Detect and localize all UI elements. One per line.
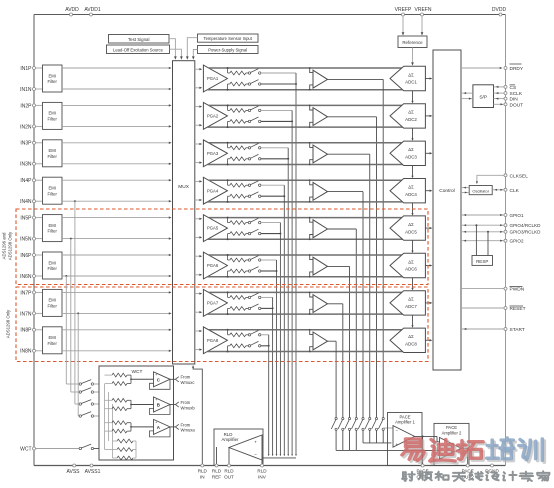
svg-text:IN2N: IN2N: [20, 124, 32, 130]
svg-text:RESP: RESP: [476, 259, 488, 264]
svg-text:RESET: RESET: [510, 306, 526, 312]
svg-text:IN4P: IN4P: [20, 178, 32, 184]
svg-text:ΔΣ: ΔΣ: [408, 334, 414, 339]
svg-text:INV: INV: [258, 475, 267, 480]
svg-text:Amplifier 1: Amplifier 1: [395, 420, 415, 425]
svg-text:A: A: [157, 425, 161, 430]
svg-text:Wmuxb: Wmuxb: [181, 405, 196, 410]
svg-text:IN2P: IN2P: [20, 103, 32, 109]
svg-text:ADC5: ADC5: [405, 229, 417, 234]
svg-text:Control: Control: [439, 188, 454, 194]
svg-text:CLK: CLK: [510, 188, 520, 194]
svg-text:IN4N: IN4N: [20, 199, 32, 205]
svg-text:From: From: [181, 422, 191, 427]
svg-text:DOUT: DOUT: [510, 102, 524, 108]
svg-text:DRDY: DRDY: [510, 66, 524, 72]
svg-text:GPIO2: GPIO2: [510, 239, 524, 244]
svg-text:ADS1298 Only: ADS1298 Only: [8, 231, 13, 260]
svg-text:Filter: Filter: [48, 304, 58, 309]
svg-text:VREFN: VREFN: [415, 7, 432, 13]
svg-text:AVSS: AVSS: [67, 469, 81, 475]
svg-text:PACE: PACE: [446, 425, 457, 430]
svg-text:S/P: S/P: [479, 94, 487, 100]
svg-text:ADC4: ADC4: [405, 192, 417, 197]
svg-text:From: From: [181, 375, 191, 380]
svg-text:Test Signal: Test Signal: [128, 37, 150, 42]
svg-text:IN8N: IN8N: [20, 349, 32, 355]
svg-text:PGA5: PGA5: [207, 226, 219, 231]
svg-text:Filter: Filter: [48, 79, 58, 84]
svg-text:ADC7: ADC7: [405, 304, 417, 309]
svg-text:IN1P: IN1P: [20, 66, 32, 72]
svg-text:REF: REF: [212, 475, 221, 480]
svg-text:CLKSEL: CLKSEL: [510, 173, 529, 179]
svg-text:−: −: [254, 454, 257, 459]
svg-text:Amplifier 2: Amplifier 2: [442, 431, 462, 436]
svg-text:Temperature Sensor Input: Temperature Sensor Input: [203, 36, 252, 41]
svg-text:ΔΣ: ΔΣ: [408, 110, 414, 115]
svg-text:AVDD1: AVDD1: [84, 7, 101, 13]
svg-text:RLD: RLD: [257, 469, 267, 474]
svg-text:RLD: RLD: [224, 469, 234, 474]
svg-text:Filter: Filter: [48, 341, 58, 346]
svg-text:B: B: [157, 403, 160, 408]
svg-text:IN5P: IN5P: [20, 216, 32, 222]
svg-text:DVDD: DVDD: [492, 7, 507, 13]
svg-text:ΔΣ: ΔΣ: [408, 222, 414, 227]
svg-text:IN7N: IN7N: [20, 311, 32, 317]
svg-text:DIN: DIN: [510, 97, 519, 103]
svg-text:Amplifier: Amplifier: [221, 437, 239, 442]
svg-text:MUX: MUX: [178, 184, 189, 190]
svg-text:+: +: [396, 442, 399, 447]
svg-text:ΔΣ: ΔΣ: [408, 185, 414, 190]
svg-text:IN8P: IN8P: [20, 328, 32, 334]
svg-text:IN5N: IN5N: [20, 237, 32, 243]
svg-text:ΔΣ: ΔΣ: [408, 72, 414, 77]
svg-text:PGA8: PGA8: [207, 338, 219, 343]
svg-text:WCT: WCT: [132, 369, 143, 375]
svg-text:PGA3: PGA3: [207, 151, 219, 156]
svg-text:RLD: RLD: [198, 469, 208, 474]
svg-text:ADC2: ADC2: [405, 117, 417, 122]
svg-text:ADS1296 and: ADS1296 and: [2, 232, 7, 259]
svg-text:RLD: RLD: [212, 469, 222, 474]
svg-text:EMI: EMI: [48, 186, 55, 191]
svg-text:EMI: EMI: [48, 148, 55, 153]
svg-text:ADC1: ADC1: [405, 80, 417, 85]
svg-text:PACE: PACE: [399, 414, 410, 419]
svg-text:EMI: EMI: [48, 260, 55, 265]
svg-text:Reference: Reference: [402, 40, 423, 45]
svg-text:Lead-Off Excitation Source: Lead-Off Excitation Source: [113, 47, 164, 52]
svg-text:WCT: WCT: [20, 447, 31, 453]
svg-text:ADC8: ADC8: [405, 342, 417, 347]
svg-text:SCLK: SCLK: [510, 91, 523, 97]
svg-text:EMI: EMI: [48, 111, 55, 116]
svg-text:Filter: Filter: [48, 191, 58, 196]
svg-text:GPIO3/RCLKD: GPIO3/RCLKD: [510, 230, 542, 235]
svg-text:EMI: EMI: [48, 298, 55, 303]
svg-text:GPIO1: GPIO1: [510, 213, 524, 218]
svg-text:−: −: [396, 427, 399, 432]
svg-text:PGA6: PGA6: [207, 263, 219, 268]
svg-text:Power-Supply Signal: Power-Supply Signal: [208, 48, 247, 53]
svg-text:Filter: Filter: [48, 154, 58, 159]
svg-text:IN6P: IN6P: [20, 253, 32, 259]
svg-text:EMI: EMI: [48, 73, 55, 78]
svg-text:+: +: [254, 441, 257, 446]
svg-text:Wmuxa: Wmuxa: [181, 428, 196, 433]
svg-text:IN3N: IN3N: [20, 162, 32, 168]
svg-text:IN3P: IN3P: [20, 141, 32, 147]
svg-text:Filter: Filter: [48, 229, 58, 234]
svg-text:OUT: OUT: [224, 475, 234, 480]
svg-text:IN: IN: [200, 475, 205, 480]
svg-text:CS: CS: [510, 85, 517, 91]
svg-text:ADC3: ADC3: [405, 155, 417, 160]
svg-text:ΔΣ: ΔΣ: [408, 259, 414, 264]
svg-text:AVDD: AVDD: [65, 7, 79, 13]
svg-text:C: C: [157, 377, 161, 382]
svg-text:ADC6: ADC6: [405, 267, 417, 272]
svg-text:EMI: EMI: [48, 223, 55, 228]
svg-text:Wmuxc: Wmuxc: [181, 380, 195, 385]
svg-text:GPIO4/RCLKD: GPIO4/RCLKD: [510, 223, 542, 228]
svg-text:PGA2: PGA2: [207, 114, 219, 119]
svg-text:ΔΣ: ΔΣ: [408, 297, 414, 302]
svg-text:PWDN: PWDN: [510, 287, 525, 293]
svg-text:IN7P: IN7P: [20, 290, 32, 296]
svg-text:IN6N: IN6N: [20, 274, 32, 280]
svg-text:From: From: [181, 400, 191, 405]
svg-text:ADS1298 Only: ADS1298 Only: [6, 309, 11, 338]
svg-text:AVSS1: AVSS1: [85, 469, 101, 475]
svg-text:EMI: EMI: [48, 335, 55, 340]
svg-text:IN1N: IN1N: [20, 87, 32, 93]
svg-text:PGA4: PGA4: [207, 188, 219, 193]
svg-text:RLD: RLD: [224, 432, 233, 437]
svg-text:START: START: [510, 327, 525, 333]
svg-text:VREFP: VREFP: [395, 7, 412, 13]
svg-text:Filter: Filter: [48, 117, 58, 122]
svg-text:PGA1: PGA1: [207, 76, 219, 81]
svg-text:ΔΣ: ΔΣ: [408, 147, 414, 152]
svg-text:Filter: Filter: [48, 266, 58, 271]
svg-text:PGA7: PGA7: [207, 301, 219, 306]
svg-text:Oscillator: Oscillator: [472, 188, 489, 193]
